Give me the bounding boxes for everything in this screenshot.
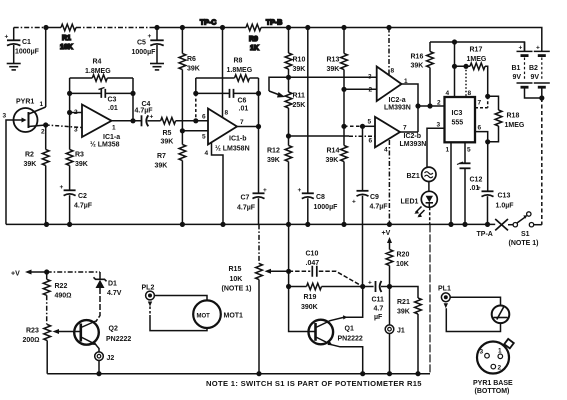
wire BZ1 to LED1 <box>428 182 430 192</box>
svg-text:.047: .047 <box>306 260 320 267</box>
comparator IC2-a <box>368 67 411 112</box>
wire R4/C3 feedback left leg <box>69 78 71 113</box>
wire IC2-a pin8 to rail <box>388 28 390 76</box>
svg-text:1000µF: 1000µF <box>132 49 157 56</box>
svg-text:C1: C1 <box>22 39 31 46</box>
svg-text:39K: 39K <box>397 309 410 316</box>
svg-text:8: 8 <box>468 90 472 97</box>
svg-text:µF: µF <box>374 314 383 321</box>
capacitor C13 <box>477 142 514 225</box>
svg-text:10K: 10K <box>60 44 73 51</box>
transistor Q2 PN2222 <box>74 320 131 352</box>
wire bottom rail to top ground rail <box>429 224 431 373</box>
wire IC3 pin5 <box>464 142 466 163</box>
node +V left <box>11 270 47 278</box>
wire IC2-b output <box>400 131 418 133</box>
wire pin2 <box>344 88 377 90</box>
svg-text:.01: .01 <box>239 106 249 113</box>
node pin6/C6 junction <box>193 118 198 123</box>
svg-text:R16: R16 <box>411 54 424 61</box>
capacitor C2 <box>60 184 93 224</box>
buzzer BZ1 <box>407 167 436 181</box>
node R15 wiper junction <box>286 269 291 274</box>
svg-text:IC3: IC3 <box>452 110 463 117</box>
resistor R20 <box>386 250 409 287</box>
svg-text:+V: +V <box>382 230 391 237</box>
op-amp IC1-b <box>202 109 250 158</box>
svg-text:+V: +V <box>11 271 20 278</box>
svg-text:+: + <box>263 187 267 194</box>
resistor R22 <box>43 272 71 300</box>
svg-text:MOT1: MOT1 <box>224 313 244 320</box>
capacitor C12 <box>457 162 482 224</box>
svg-text:4.7µF: 4.7µF <box>370 204 389 211</box>
potentiometer R15 <box>222 264 289 374</box>
resistor R3 <box>66 113 88 191</box>
svg-text:+: + <box>60 184 64 191</box>
svg-text:R8: R8 <box>234 58 243 65</box>
node battery minus junction <box>539 95 544 100</box>
svg-text:39K: 39K <box>24 161 37 168</box>
svg-text:C3: C3 <box>108 97 117 104</box>
wire wiper column to Q1 base <box>289 224 316 331</box>
svg-text:1.8MEG: 1.8MEG <box>227 67 253 74</box>
svg-text:IC2-b: IC2-b <box>404 133 422 140</box>
svg-text:R18: R18 <box>507 113 520 120</box>
svg-text:1000µF: 1000µF <box>15 49 40 56</box>
resistor R6 <box>179 28 200 131</box>
wire R22 to R23 (dash-dot) <box>46 295 48 324</box>
svg-text:2: 2 <box>41 129 45 136</box>
node R22 top junction <box>44 269 49 274</box>
wire IC3 pin6 <box>475 132 488 142</box>
LED LED1 <box>401 191 438 217</box>
zener D1 <box>94 272 122 322</box>
resistor R10 <box>285 28 305 78</box>
node IC1-b output <box>256 124 261 129</box>
battery B2 <box>529 45 550 99</box>
resistor R1 <box>60 24 76 51</box>
svg-text:½ LM358: ½ LM358 <box>90 141 120 149</box>
svg-text:IC2-a: IC2-a <box>389 97 406 104</box>
svg-text:D1: D1 <box>108 281 117 288</box>
resistor R19 <box>289 283 363 311</box>
node Q1 collector junction <box>360 284 365 289</box>
capacitor C7 <box>237 127 267 225</box>
resistor R4 <box>85 59 111 82</box>
test point TP-A (X mark) <box>477 219 509 238</box>
svg-text:BZ1: BZ1 <box>407 173 420 180</box>
capacitor C5 <box>132 28 164 64</box>
node pin4 column top <box>452 39 457 44</box>
svg-text:4.7: 4.7 <box>374 306 384 313</box>
node R17 row left <box>452 64 457 69</box>
svg-text:C12: C12 <box>470 177 483 184</box>
wire R11 wiper hook <box>269 77 289 91</box>
node IC1-a pin2 junction <box>67 110 72 115</box>
wire R5 to IC1-b pin6 <box>176 120 208 122</box>
wire IC1-b output <box>237 126 259 128</box>
svg-text:2: 2 <box>437 100 441 107</box>
wire IC3 pin1 <box>450 142 452 224</box>
node R6/R7 pin5 junction <box>180 128 185 133</box>
svg-text:1: 1 <box>446 147 450 154</box>
sensor PYR1 <box>3 99 46 136</box>
wire R8 top row <box>196 77 259 79</box>
switch S1 <box>508 212 542 247</box>
node +V right <box>382 230 393 250</box>
svg-text:C6: C6 <box>238 98 247 105</box>
svg-text:1MEG: 1MEG <box>467 56 487 63</box>
capacitor C10 <box>306 251 363 287</box>
svg-text:555: 555 <box>452 120 464 127</box>
wire IC1-a output <box>112 120 142 122</box>
resistor R7 <box>155 131 186 225</box>
wire R11/R12 node to IC2-b pin6 <box>289 135 350 137</box>
svg-text:R3: R3 <box>75 152 84 159</box>
resistor R18 <box>488 96 525 142</box>
potentiometer R11 <box>285 77 305 136</box>
node PYR1 pin2 <box>43 122 48 127</box>
resistor R13 <box>327 28 348 127</box>
node C3 row junctions <box>67 91 72 96</box>
svg-text:IC1-b: IC1-b <box>229 136 247 143</box>
wire PYR1 pin3 left leg <box>6 120 14 224</box>
svg-text:R23: R23 <box>26 328 39 335</box>
node R16 bottom junction <box>427 103 432 108</box>
wire IC2-b pin4 to ground <box>388 140 390 224</box>
svg-text:C9: C9 <box>370 194 379 201</box>
svg-text:3: 3 <box>3 113 7 120</box>
node R17/pin8 junction <box>463 64 468 69</box>
svg-text:IC1-a: IC1-a <box>103 134 120 141</box>
svg-text:+: + <box>148 33 152 40</box>
svg-text:4: 4 <box>205 150 209 157</box>
node IC1-a output <box>130 118 135 123</box>
svg-text:390K: 390K <box>301 304 318 311</box>
svg-text:1.0µF: 1.0µF <box>496 203 515 210</box>
svg-text:R20: R20 <box>397 252 410 259</box>
svg-text:2: 2 <box>74 109 78 116</box>
svg-text:Q1: Q1 <box>345 326 354 333</box>
wire feedback right leg <box>258 78 260 127</box>
svg-text:S1: S1 <box>521 231 530 238</box>
node ground rail junctions <box>44 222 490 227</box>
svg-text:1: 1 <box>40 101 44 108</box>
capacitor C4 <box>135 101 161 126</box>
svg-text:4.7V: 4.7V <box>107 290 122 297</box>
capacitor C6 <box>230 89 249 113</box>
svg-text:R14: R14 <box>327 148 340 155</box>
capacitor C9 <box>352 126 388 286</box>
svg-text:R12: R12 <box>267 148 280 155</box>
svg-text:B2: B2 <box>529 65 538 72</box>
svg-text:½ LM358N: ½ LM358N <box>215 145 250 153</box>
node top rail junctions <box>43 25 391 30</box>
svg-text:+: + <box>519 45 523 52</box>
ground (C5) <box>150 64 164 70</box>
svg-text:R5: R5 <box>163 130 172 137</box>
svg-text:5: 5 <box>202 134 206 141</box>
wire R4 top row <box>70 77 133 79</box>
node R19 left junction <box>286 284 291 289</box>
svg-text:1.8MEG: 1.8MEG <box>85 68 111 75</box>
svg-text:9V: 9V <box>531 74 540 81</box>
node R11/R12 junction <box>286 133 291 138</box>
svg-text:R13: R13 <box>327 57 340 64</box>
capacitor C1 <box>5 28 40 64</box>
svg-text:MOT: MOT <box>197 314 211 320</box>
svg-text:LM393N: LM393N <box>384 105 411 112</box>
capacitor C8 <box>298 28 339 225</box>
svg-text:.01: .01 <box>470 185 480 192</box>
node R13 pin2 junction <box>341 87 346 92</box>
svg-text:R10: R10 <box>293 57 306 64</box>
resistor R2 <box>24 125 50 224</box>
svg-text:R19: R19 <box>304 294 317 301</box>
svg-text:R7: R7 <box>157 153 166 160</box>
svg-text:5: 5 <box>467 147 471 154</box>
wire pin5 (dashed) <box>344 125 363 127</box>
svg-text:39K: 39K <box>75 161 88 168</box>
svg-text:8: 8 <box>225 110 229 117</box>
svg-text:8: 8 <box>391 68 395 75</box>
svg-text:+: + <box>150 114 154 121</box>
wire wiper node to C10 <box>289 270 311 272</box>
svg-text:C2: C2 <box>78 193 87 200</box>
wire V+ row to batteries <box>430 42 525 51</box>
svg-text:R17: R17 <box>470 47 483 54</box>
svg-text:6: 6 <box>478 125 482 132</box>
svg-text:6: 6 <box>202 114 206 121</box>
node R10/R11 junction <box>286 75 291 80</box>
svg-text:2: 2 <box>498 365 502 372</box>
resistor R16 <box>411 42 434 106</box>
wire R10/R11 node to IC2-a pin3 <box>289 76 377 78</box>
svg-text:4: 4 <box>384 147 388 154</box>
svg-text:C13: C13 <box>498 193 511 200</box>
resistor R8 <box>227 58 253 82</box>
svg-text:.01: .01 <box>108 105 118 112</box>
wire pin2 to IC1-a pin3 (dashed) <box>46 125 82 128</box>
svg-text:Q2: Q2 <box>109 326 118 333</box>
wire bottom rail <box>47 373 430 375</box>
plug PL1 <box>438 286 501 332</box>
svg-text:J2: J2 <box>107 355 115 362</box>
svg-text:3: 3 <box>480 349 484 356</box>
node comparator output junction <box>415 103 420 108</box>
svg-text:LM393N: LM393N <box>400 141 427 148</box>
wire R8/C6 feedback left leg <box>195 78 197 93</box>
svg-text:(BOTTOM): (BOTTOM) <box>475 388 510 395</box>
resistor R9 <box>246 24 261 52</box>
svg-text:1K: 1K <box>250 45 259 52</box>
wire R17 row <box>455 66 488 96</box>
wire top supply rail <box>14 28 542 52</box>
svg-text:4: 4 <box>446 90 450 97</box>
svg-text:39K: 39K <box>293 66 306 73</box>
svg-text:+: + <box>298 187 302 194</box>
svg-text:7: 7 <box>403 125 407 132</box>
resistor R17 <box>467 47 487 70</box>
node pin7/R17/R18 junction <box>485 94 490 99</box>
resistor R5 <box>161 118 176 146</box>
svg-text:R1: R1 <box>62 35 71 42</box>
wire pin5 <box>182 130 208 132</box>
svg-text:1: 1 <box>498 348 502 355</box>
svg-text:R21: R21 <box>397 299 410 306</box>
node R20 bottom junction <box>387 284 392 289</box>
svg-text:1: 1 <box>112 125 116 132</box>
svg-text:39K: 39K <box>326 157 339 164</box>
svg-text:(NOTE 1): (NOTE 1) <box>509 240 539 247</box>
svg-text:3: 3 <box>74 127 78 134</box>
wire LED1 to ground rail (dashed) <box>429 207 431 224</box>
wire IC3 pin8 (dotted) <box>465 66 467 97</box>
svg-text:490Ω: 490Ω <box>55 293 72 300</box>
svg-text:200Ω: 200Ω <box>23 337 40 344</box>
svg-text:2: 2 <box>369 87 373 94</box>
svg-text:PYR1 BASE: PYR1 BASE <box>473 380 513 387</box>
svg-text:C10: C10 <box>306 251 319 258</box>
svg-text:(NOTE 1): (NOTE 1) <box>222 286 252 293</box>
capacitor C11 <box>363 280 390 322</box>
svg-text:R11: R11 <box>293 93 306 100</box>
wire +V to D1 (dash-dot) <box>47 271 100 273</box>
comparator IC2-b <box>368 117 427 154</box>
battery B1 <box>512 42 542 98</box>
svg-text:39K: 39K <box>155 163 168 170</box>
svg-text:6: 6 <box>369 138 373 145</box>
svg-text:PYR1: PYR1 <box>16 99 34 106</box>
node C9 top junction <box>360 124 365 129</box>
resistor R12 <box>267 136 292 224</box>
svg-text:25K: 25K <box>293 102 306 109</box>
jack J2 <box>95 352 115 374</box>
node pin5 junction <box>341 124 346 129</box>
wire battery minus to S1 (dashed) <box>541 98 543 225</box>
svg-text:C11: C11 <box>372 297 385 304</box>
svg-text:B1: B1 <box>512 65 521 72</box>
svg-text:R9: R9 <box>249 36 258 43</box>
svg-text:PN2222: PN2222 <box>338 336 363 343</box>
node bottom rail junctions <box>96 371 420 376</box>
ground (C1) <box>7 64 21 70</box>
svg-text:5: 5 <box>368 119 372 126</box>
svg-text:3: 3 <box>368 74 372 81</box>
wire IC2-a output <box>402 84 419 132</box>
svg-text:39K: 39K <box>327 66 340 73</box>
svg-text:1000µF: 1000µF <box>314 204 339 211</box>
svg-text:TP-A: TP-A <box>477 231 493 238</box>
op-amp IC1-a <box>70 105 121 149</box>
plug tip symbol (PL1 mate) <box>492 306 510 324</box>
svg-text:R4: R4 <box>93 59 102 66</box>
svg-text:+: + <box>536 45 540 52</box>
wire IC1-b pin8 to TP-C <box>222 28 224 118</box>
wire IC1-b pin4 hook to ground <box>212 143 224 224</box>
svg-text:+: + <box>5 34 9 41</box>
svg-text:R15: R15 <box>229 266 242 273</box>
svg-text:R22: R22 <box>55 283 68 290</box>
wire C6 row <box>196 92 259 94</box>
svg-text:LED1: LED1 <box>401 199 419 206</box>
wire C7 to R15 (dash-dot) <box>258 224 260 263</box>
transistor Q1 PN2222 <box>309 287 363 374</box>
svg-text:39K: 39K <box>187 66 200 73</box>
svg-text:10K: 10K <box>396 261 409 268</box>
svg-text:9V: 9V <box>513 74 522 81</box>
svg-text:4.7µF: 4.7µF <box>237 205 256 212</box>
svg-text:TP-C: TP-C <box>200 20 216 27</box>
svg-text:PL2: PL2 <box>142 285 155 292</box>
svg-text:7: 7 <box>240 119 244 126</box>
svg-text:C5: C5 <box>137 40 146 47</box>
svg-text:7: 7 <box>478 100 482 107</box>
connector PYR1 BASE view <box>473 339 514 395</box>
wire IC3 pin3 to BZ1 <box>427 128 445 167</box>
svg-text:R6: R6 <box>187 56 196 63</box>
svg-text:R2: R2 <box>25 152 34 159</box>
wire ground rail (top section) <box>6 223 495 225</box>
wire C3 row <box>70 92 133 94</box>
svg-text:C8: C8 <box>316 194 325 201</box>
svg-text:NOTE 1: SWITCH S1 IS PART OF P: NOTE 1: SWITCH S1 IS PART OF POTENTIOMET… <box>206 379 422 388</box>
svg-text:+: + <box>352 199 356 206</box>
wire R23 to bottom rail <box>46 341 48 374</box>
plug PL2 <box>142 285 208 331</box>
capacitor C3 <box>99 88 118 113</box>
svg-text:C7: C7 <box>241 195 250 202</box>
svg-text:39K: 39K <box>161 139 174 146</box>
svg-text:TP-B: TP-B <box>266 20 282 27</box>
svg-text:39K: 39K <box>267 157 280 164</box>
svg-text:4.7µF: 4.7µF <box>74 203 93 210</box>
node C6 row junctions <box>193 91 198 96</box>
wire PYR1 pin1 to rail <box>45 28 47 108</box>
resistor R21 <box>390 287 422 374</box>
node pin6/R18 junction <box>485 139 490 144</box>
svg-text:1MEG: 1MEG <box>505 122 525 129</box>
svg-text:PL1: PL1 <box>438 286 451 293</box>
svg-text:+: + <box>368 280 372 287</box>
svg-text:10K: 10K <box>230 276 243 283</box>
svg-text:4.7µF: 4.7µF <box>135 108 154 115</box>
wire output node to IC3 pin2 <box>418 105 445 107</box>
svg-text:PN2222: PN2222 <box>106 336 131 343</box>
svg-text:J1: J1 <box>397 328 405 335</box>
wire feedback right leg <box>132 78 134 121</box>
wire IC3 pin7 (dashed) <box>475 96 488 108</box>
wire IC3 pin4 <box>454 42 456 97</box>
motor MOT1 <box>193 300 243 328</box>
resistor R14 <box>326 126 348 224</box>
timer IC3 555 <box>437 90 482 154</box>
jack J1 <box>385 287 405 374</box>
svg-text:39K: 39K <box>411 63 424 70</box>
potentiometer R23 <box>23 325 81 345</box>
